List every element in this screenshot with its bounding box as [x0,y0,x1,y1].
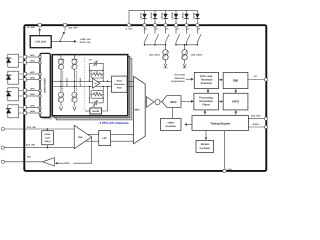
svg-text:LPF: LPF [102,137,107,140]
LED D6 [192,10,199,23]
svg-text:1.8V LDO: 1.8V LDO [35,41,46,44]
svg-text:DVDD_1V8: DVDD_1V8 [80,41,91,44]
pin ADC_RDY [251,114,268,120]
wire PPG rail IN+ [50,80,92,82]
svg-text:Filters: Filters [202,103,210,106]
photodiode PD2 [6,71,23,84]
svg-text:I/O: I/O [254,75,257,78]
LED D1 [139,10,146,23]
svg-text:ALC DAC: ALC DAC [65,77,68,86]
svg-text:LED2A: LED2A [160,12,163,19]
pin TX1 [143,24,148,31]
svg-text:4 MHz: 4 MHz [167,121,174,124]
svg-text:Switch Matrix: Switch Matrix [44,77,47,93]
pin I/O [254,75,268,81]
wire LDO output AVDD [51,41,76,43]
svg-text:ADC_RDY: ADC_RDY [251,114,261,117]
pin TX2 [153,24,158,31]
switch matrix [39,53,53,119]
LED D4 [171,10,178,23]
wire ADC clock [172,107,174,118]
op-amp TIA [93,78,112,88]
svg-text:MUX: MUX [135,109,141,112]
wire VA_SUP to LDO [39,28,41,35]
pin GPIO2 [253,123,268,128]
svg-text:LED1A: LED1A [139,12,142,19]
PPG channel front box [52,55,128,116]
buffer amp [145,97,162,108]
wire LPF to MUX [111,133,134,135]
wire bus to LED_DRV2 [175,44,198,50]
wire PPG rail IN- [50,86,92,88]
svg-text:LED3A: LED3A [181,12,184,19]
svg-text:RF: RF [96,71,98,74]
svg-text:Select: Select [44,140,50,143]
block AACB [85,87,108,115]
svg-text:ADC: ADC [170,100,177,104]
wire PPG outputs to MUX [127,80,134,82]
current source LED_DRV1 [149,50,168,68]
pin TX6 [196,24,201,31]
LED D5 [181,10,188,23]
wire bus to LED_DRV1 [144,44,167,50]
pin LDO_BYP [63,24,78,30]
svg-text:Noise: Noise [116,80,123,83]
switch S4 [176,27,180,45]
svg-text:ALC DAC: ALC DAC [79,77,82,86]
wire processing to FIFO [219,101,223,103]
svg-text:Oscillator: Oscillator [165,125,176,128]
svg-text:FIFO: FIFO [232,100,239,104]
capacitor CF top (programmable) [89,59,103,82]
wire ECG box to processing [207,89,209,93]
LED D2 [150,10,157,23]
svg-text:Oscillator: Oscillator [199,147,210,150]
wire timing engine to FIFO [235,111,237,116]
pin TX_SUP [125,24,133,31]
capacitor CF bottom (programmable) [90,100,104,108]
block FIFO [223,93,248,110]
svg-text:LED3B: LED3B [192,12,195,19]
resistor RF top in box [89,70,104,82]
wire timing to ADC_RDY pin [248,118,264,120]
svg-text:Reduction: Reduction [114,83,125,86]
wire timing engine to CLK pin [224,131,226,170]
svg-text:LED1B: LED1B [150,12,153,19]
block ECG lead threshold detection [194,72,218,88]
pin INN3 [23,93,39,97]
pin INP2 [23,71,39,75]
svg-text:TX_SUP: TX_SUP [125,27,133,30]
photodiode PD4 [6,105,23,118]
svg-text:128 kHz: 128 kHz [201,143,210,146]
pin ECG_INP [1,126,74,130]
current DAC branch ALC1 [58,55,68,111]
op-amp INA [74,125,99,148]
svg-text:3 PPG RX Channels: 3 PPG RX Channels [100,121,129,125]
op-amp RCM driver [42,137,91,166]
wire timing engine to 4MHz osc [185,123,192,125]
pin TX3 [164,24,169,31]
wire SBI to FIFO [235,89,237,93]
svg-text:Filter: Filter [117,87,122,90]
svg-text:ECG_INN: ECG_INN [26,143,35,146]
svg-text:Detection: Detection [201,82,213,85]
svg-text:LDO_BYP: LDO_BYP [68,27,78,30]
svg-text:AC/DC: AC/DC [44,133,51,136]
pin INN4 [23,110,39,114]
photodiode PD1 [6,54,23,67]
svg-text:RCM: RCM [64,162,69,165]
wire timing engine to processing [204,111,206,116]
pin TX4 [174,24,179,31]
chip outline U1 [24,25,266,171]
svg-text:LED_DRV2: LED_DRV2 [191,54,203,57]
pin INN2 [23,77,39,81]
oscillator 4MHz [161,119,182,131]
svg-text:Timing Engine: Timing Engine [210,121,230,125]
wire TX_SUP riser and LED anode bus [129,10,197,23]
svg-text:VA_SUP: VA_SUP [27,26,36,29]
switch S2 [155,27,159,45]
pin INP4 [23,105,39,109]
switch S3 [166,27,170,45]
pin VA_SUP [27,24,41,30]
wire ECG box to SBI [219,79,223,81]
pin ECG_INN [1,143,74,149]
svg-text:AVDD_1V8: AVDD_1V8 [80,38,91,41]
pin INP1 [23,54,39,58]
photodiode PD3 [6,88,23,101]
dashed boundary inside PPG block [83,58,85,110]
svg-text:LED2B: LED2B [171,12,174,19]
block SBI [223,72,248,88]
block AC/DC lead select [42,128,54,148]
switch S6 [197,27,201,45]
svg-text:RF: RF [96,91,98,94]
filter LPF [99,131,111,146]
filter box noise reduction [107,76,127,92]
resistor RF bottom in box [89,86,104,103]
PPG channel stacked box 3 [56,59,132,120]
wire SBI to IO pin [248,79,264,81]
pin INP3 [23,88,39,92]
svg-text:CLK: CLK [228,168,233,171]
wire timing engine to 128kHz osc [205,131,207,140]
switch LDO bypass [60,27,65,41]
pin CLK [223,168,232,173]
wire ADC to processing [181,100,193,102]
adc ADC [162,96,181,108]
svg-text:AACB: AACB [92,110,99,113]
LED D3 [160,10,167,23]
svg-text:ECG lead: ECG lead [174,74,185,77]
switch S1 [145,27,149,45]
PPG channel stacked box 2 [54,57,130,118]
regulator 1.8V LDO [30,36,51,48]
current source LED_DRV2 [182,50,203,68]
svg-text:Lead: Lead [45,136,51,139]
svg-text:GPIO2: GPIO2 [253,123,260,126]
block timing engine [192,116,248,131]
switch S5 [187,27,191,45]
svg-text:INA: INA [78,136,82,139]
current DAC branch ALC2 [72,55,82,111]
pin INN1 [23,60,39,64]
pin RLD [1,156,42,164]
wire timing to GPIO pin [248,126,264,128]
oscillator 128kHz [196,140,214,152]
svg-text:detection: detection [174,77,185,80]
svg-text:comparators: comparators [171,80,186,83]
svg-text:LED_DRV1: LED_DRV1 [149,54,161,57]
svg-text:RLD: RLD [27,156,32,159]
label ECG lead detection comparators [171,74,194,84]
mux MUX [134,76,146,144]
block processing decimation filters [194,93,219,110]
pin TX5 [185,24,190,31]
svg-text:SBI: SBI [233,79,238,83]
